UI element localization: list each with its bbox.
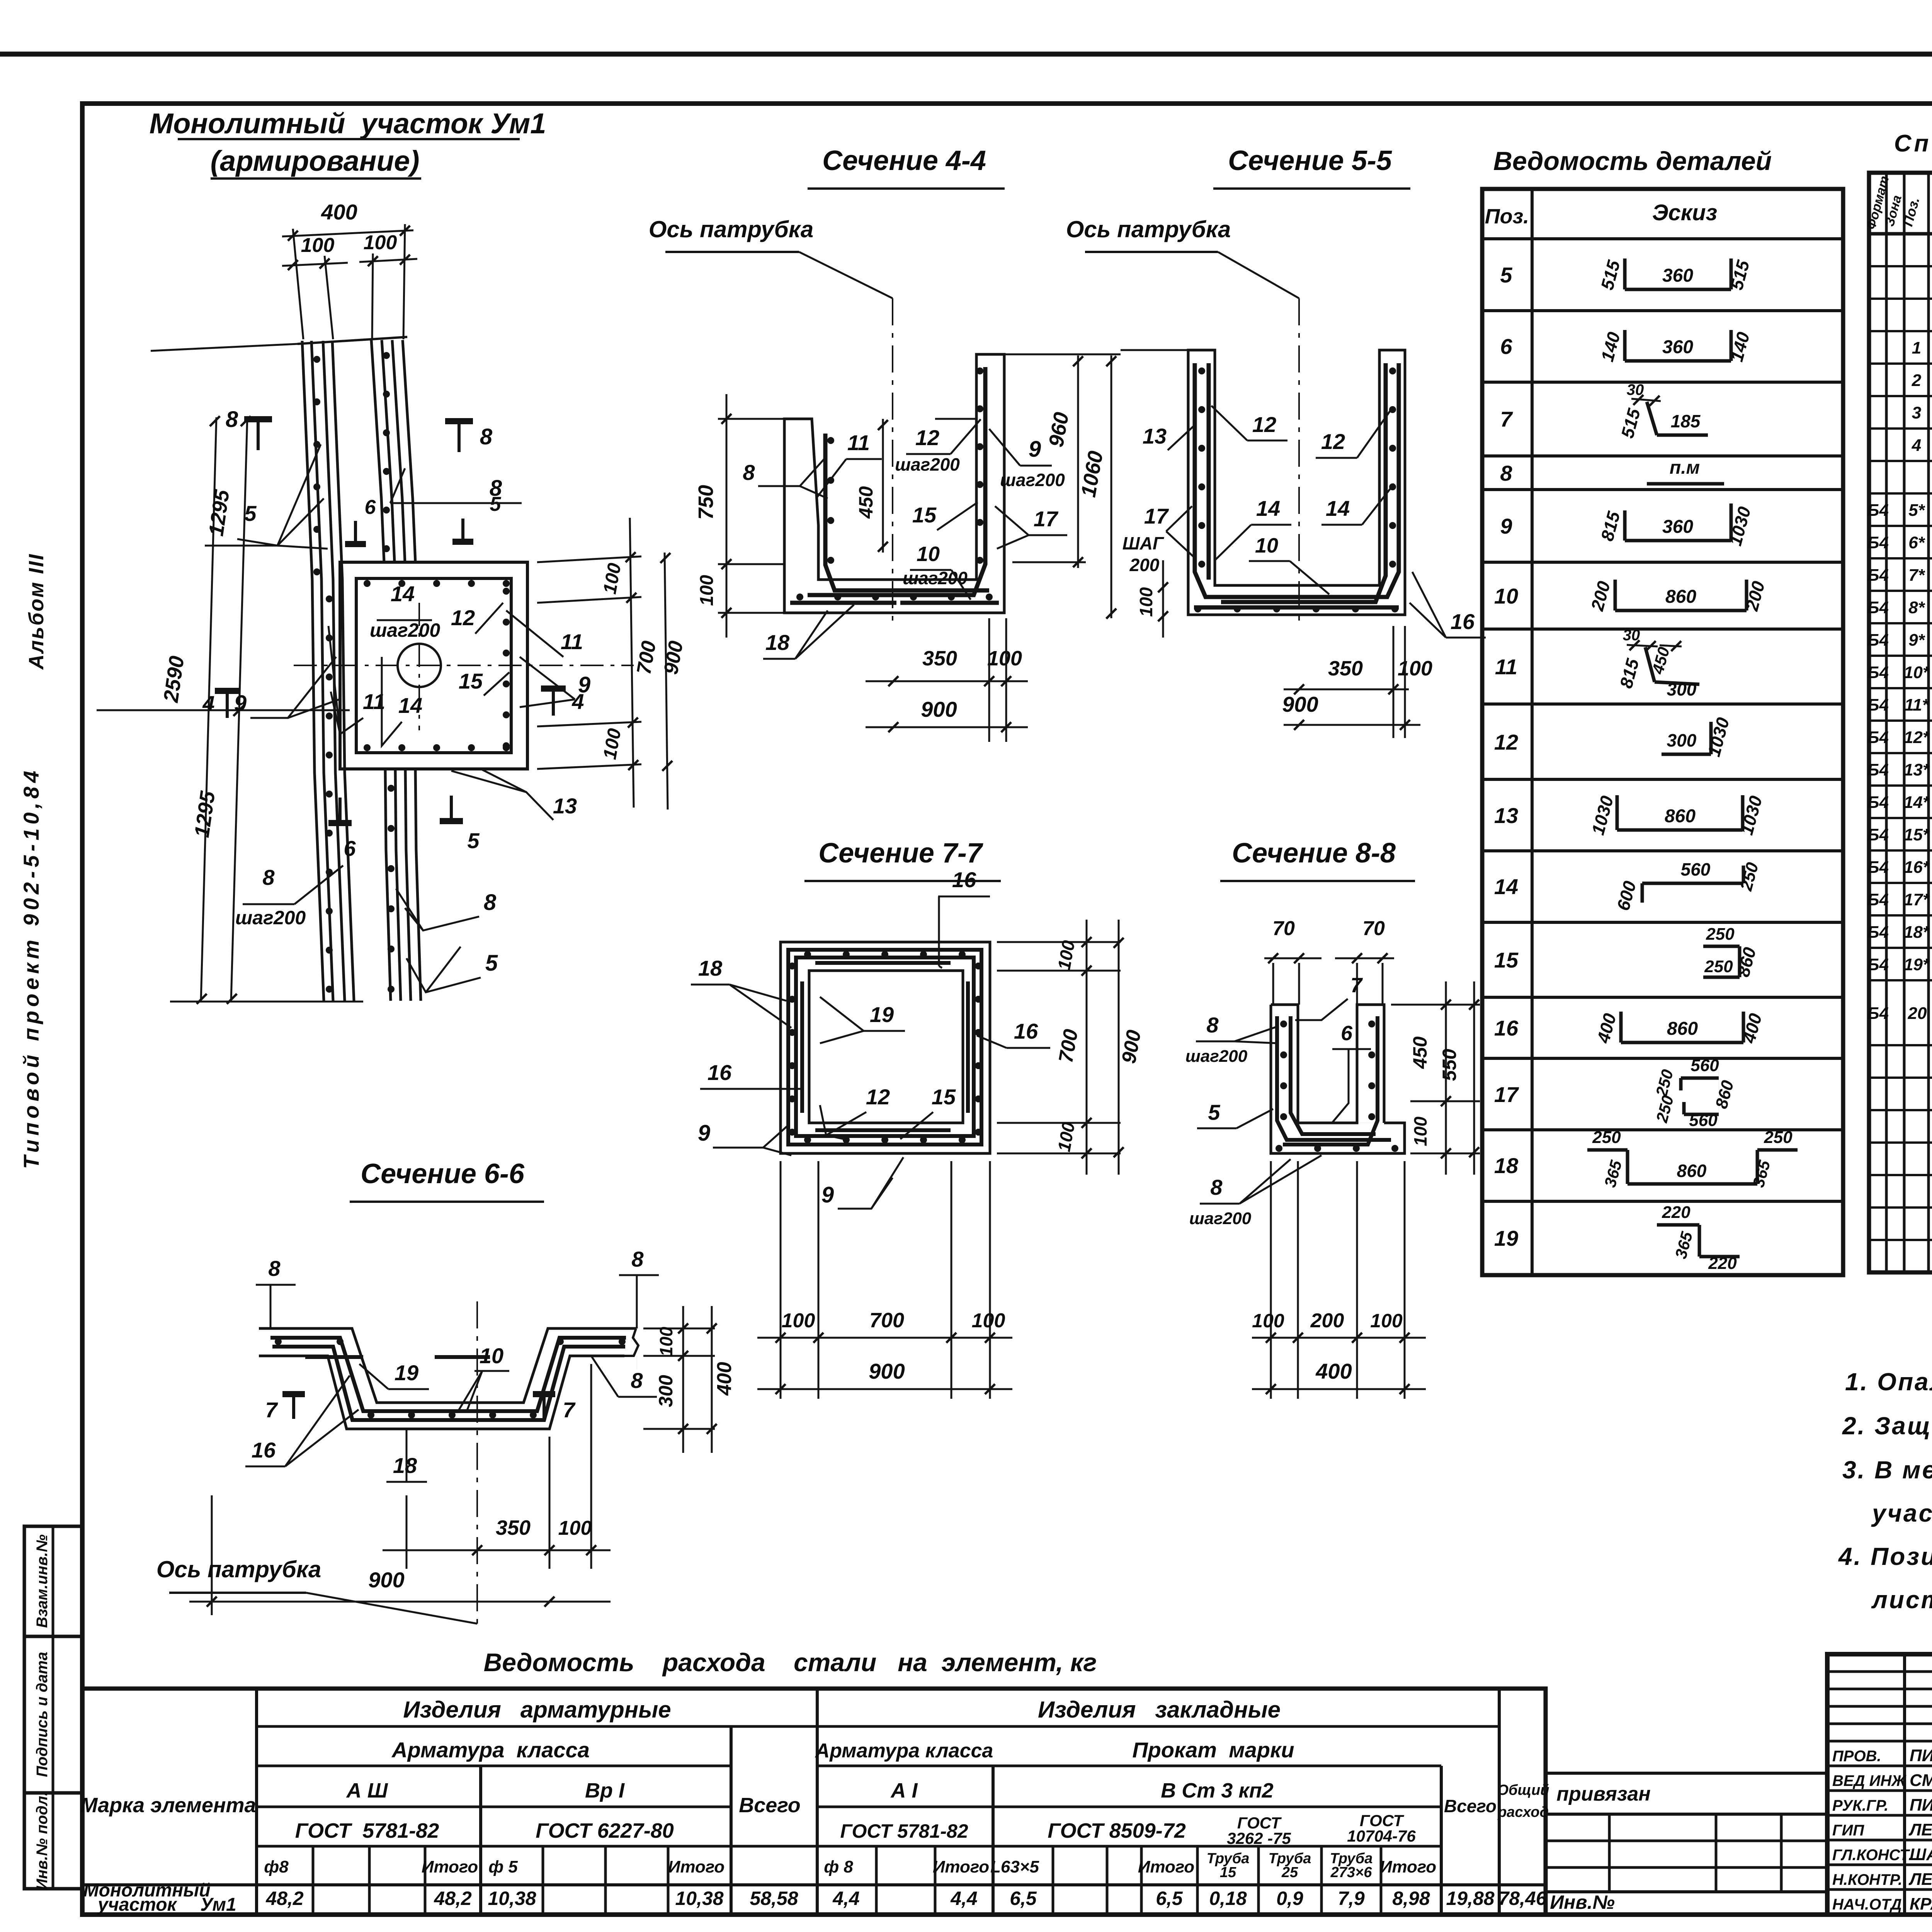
svg-text:Б4: Б4 bbox=[1867, 533, 1889, 552]
7-7 dimensions bottom bbox=[780, 1161, 782, 1399]
svg-text:Н.КОНТР.: Н.КОНТР. bbox=[1832, 1871, 1902, 1888]
svg-text:В Ст 3 кп2: В Ст 3 кп2 bbox=[1161, 1779, 1273, 1802]
svg-text:Ведомость расхода стали: Ведомость расхода стали на элемент, кг bbox=[484, 1648, 1097, 1677]
plan: wall top edge bbox=[298, 337, 407, 344]
svg-text:Общий: Общий bbox=[1497, 1782, 1549, 1798]
svg-text:шаг200: шаг200 bbox=[903, 568, 968, 588]
svg-text:шаг200: шаг200 bbox=[895, 454, 960, 474]
svg-text:Инв.№: Инв.№ bbox=[1550, 1891, 1615, 1913]
svg-text:220: 220 bbox=[1708, 1254, 1737, 1273]
svg-text:100: 100 bbox=[987, 647, 1022, 670]
svg-text:9: 9 bbox=[234, 691, 247, 716]
svg-text:Прокат марки: Прокат марки bbox=[1132, 1738, 1294, 1762]
4-4 concrete outline bbox=[784, 354, 1004, 613]
svg-text:ЛЕВИНА: ЛЕВИНА bbox=[1908, 1820, 1932, 1839]
svg-text:250: 250 bbox=[1764, 1128, 1793, 1147]
svg-text:2: 2 bbox=[1912, 371, 1922, 390]
svg-text:ф 5: ф 5 bbox=[488, 1857, 518, 1876]
svg-text:12: 12 bbox=[1252, 412, 1276, 437]
7-7 rebar rings bbox=[788, 950, 981, 1145]
svg-text:ГОСТ 5781-82: ГОСТ 5781-82 bbox=[840, 1820, 968, 1842]
svg-text:18: 18 bbox=[393, 1453, 417, 1478]
svg-text:14: 14 bbox=[1326, 496, 1350, 520]
6-6 rebar bbox=[270, 1338, 626, 1411]
svg-text:11: 11 bbox=[1495, 655, 1517, 679]
svg-text:13: 13 bbox=[1494, 803, 1518, 828]
svg-text:КРАСАВИН: КРАСАВИН bbox=[1910, 1895, 1932, 1913]
plan: middle opening box with circle bbox=[340, 562, 527, 769]
svg-text:15: 15 bbox=[912, 503, 937, 527]
svg-text:4,4: 4,4 bbox=[950, 1888, 978, 1909]
svg-text:8: 8 bbox=[631, 1247, 644, 1271]
svg-text:7: 7 bbox=[563, 1398, 576, 1422]
svg-text:4. Позиции *– см. ведомость: 4. Позиции *– см. ведомость деталей на д… bbox=[1838, 1543, 1932, 1570]
svg-text:350: 350 bbox=[922, 647, 957, 670]
svg-text:участка Ум1 поз. 8 отогнуть: участка Ум1 поз. 8 отогнуть и обрезать п… bbox=[1871, 1499, 1932, 1527]
svg-text:8: 8 bbox=[1500, 461, 1512, 485]
svg-text:15: 15 bbox=[932, 1085, 956, 1109]
svg-text:250: 250 bbox=[1706, 925, 1735, 944]
svg-text:9*: 9* bbox=[1908, 631, 1925, 650]
svg-text:860: 860 bbox=[1677, 1161, 1707, 1181]
svg-text:10,38: 10,38 bbox=[488, 1888, 536, 1909]
svg-text:1: 1 bbox=[1912, 338, 1921, 357]
svg-text:11: 11 bbox=[561, 629, 583, 654]
svg-text:1. Опалубочный чертеж см. ли: 1. Опалубочный чертеж см. лист АС-14. bbox=[1845, 1368, 1932, 1396]
svg-text:16: 16 bbox=[1014, 1019, 1038, 1043]
svg-text:2. Защитный слой бетона – 2: 2. Защитный слой бетона – 20 мм. bbox=[1842, 1412, 1932, 1440]
svg-text:11*: 11* bbox=[1905, 696, 1930, 714]
svg-text:100: 100 bbox=[558, 1517, 592, 1539]
svg-text:Арматура класса: Арматура класса bbox=[815, 1740, 993, 1762]
svg-text:ГОСТ 5781-82: ГОСТ 5781-82 bbox=[295, 1819, 439, 1842]
svg-text:5: 5 bbox=[1500, 263, 1512, 287]
plan: box right dims 100 700 100 bbox=[537, 556, 641, 562]
svg-text:11: 11 bbox=[847, 430, 870, 455]
svg-text:Б4: Б4 bbox=[1867, 696, 1889, 714]
svg-text:10704-76: 10704-76 bbox=[1347, 1827, 1416, 1845]
left edge small boxes bbox=[24, 1526, 82, 1636]
svg-text:Вр I: Вр I bbox=[585, 1779, 625, 1802]
svg-text:6: 6 bbox=[344, 836, 356, 861]
svg-text:8: 8 bbox=[490, 476, 502, 501]
svg-text:(армирование): (армирование) bbox=[211, 145, 420, 177]
svg-text:13: 13 bbox=[1143, 424, 1167, 448]
svg-text:шаг200: шаг200 bbox=[1185, 1047, 1248, 1066]
svg-text:360: 360 bbox=[1662, 517, 1693, 537]
привязан extension table bbox=[1546, 1772, 1827, 1775]
svg-text:6: 6 bbox=[1341, 1022, 1353, 1045]
svg-text:16: 16 bbox=[952, 867, 976, 892]
svg-text:12: 12 bbox=[451, 605, 475, 630]
svg-text:19: 19 bbox=[395, 1361, 418, 1385]
svg-text:Типовой проект 902-5-10,84: Типовой проект 902-5-10,84 bbox=[19, 767, 43, 1169]
svg-text:300: 300 bbox=[1667, 679, 1697, 699]
svg-text:10: 10 bbox=[480, 1344, 503, 1368]
svg-text:10*: 10* bbox=[1904, 663, 1930, 682]
svg-text:Итого: Итого bbox=[422, 1857, 478, 1876]
svg-text:900: 900 bbox=[869, 1359, 905, 1383]
svg-text:9: 9 bbox=[1029, 437, 1041, 462]
svg-text:Итого: Итого bbox=[668, 1857, 724, 1876]
svg-text:ЛЕВИНА: ЛЕВИНА bbox=[1908, 1870, 1932, 1889]
svg-text:360: 360 bbox=[1662, 337, 1693, 357]
svg-text:860: 860 bbox=[1665, 806, 1696, 827]
svg-text:3262 -75: 3262 -75 bbox=[1227, 1829, 1291, 1847]
svg-text:9: 9 bbox=[698, 1121, 710, 1146]
svg-text:8: 8 bbox=[1210, 1175, 1223, 1199]
svg-text:18: 18 bbox=[765, 630, 790, 655]
svg-text:10,38: 10,38 bbox=[675, 1888, 723, 1909]
svg-text:Итого: Итого bbox=[933, 1857, 989, 1876]
svg-text:300: 300 bbox=[655, 1375, 677, 1407]
svg-text:шаг200: шаг200 bbox=[235, 907, 306, 929]
svg-text:ф8: ф8 bbox=[264, 1857, 289, 1876]
svg-text:Ведомость деталей: Ведомость деталей bbox=[1493, 146, 1772, 176]
svg-text:12: 12 bbox=[1494, 730, 1518, 754]
svg-text:6: 6 bbox=[1500, 334, 1512, 359]
svg-text:Сечение 5-5: Сечение 5-5 bbox=[1228, 145, 1392, 176]
svg-text:Всего: Всего bbox=[739, 1794, 801, 1817]
svg-text:360: 360 bbox=[1662, 265, 1693, 286]
svg-text:ГОСТ 6227-80: ГОСТ 6227-80 bbox=[536, 1819, 674, 1842]
svg-text:100: 100 bbox=[1252, 1310, 1284, 1332]
svg-text:участок: участок bbox=[97, 1895, 177, 1915]
svg-text:Б4: Б4 bbox=[1867, 923, 1889, 942]
svg-text:17: 17 bbox=[1034, 507, 1059, 531]
svg-text:6: 6 bbox=[365, 496, 376, 519]
svg-text:17: 17 bbox=[1494, 1082, 1519, 1107]
svg-text:Арматура класса: Арматура класса bbox=[391, 1738, 590, 1762]
svg-text:8: 8 bbox=[480, 424, 493, 449]
svg-text:9: 9 bbox=[578, 672, 590, 697]
plan: left curved wall (pos 5) bbox=[302, 341, 324, 1001]
svg-text:14: 14 bbox=[1494, 874, 1518, 899]
svg-text:Сечение 6-6: Сечение 6-6 bbox=[361, 1158, 525, 1189]
svg-text:8: 8 bbox=[484, 890, 497, 915]
svg-text:Б4: Б4 bbox=[1867, 858, 1889, 877]
svg-text:Б4: Б4 bbox=[1867, 890, 1889, 909]
7-7 concrete square bbox=[781, 942, 990, 1153]
svg-text:ВЕД ИНЖ: ВЕД ИНЖ bbox=[1832, 1772, 1906, 1789]
svg-text:0,18: 0,18 bbox=[1209, 1888, 1247, 1909]
6-6 concrete outline (trough) bbox=[259, 1328, 636, 1403]
svg-text:Б4: Б4 bbox=[1867, 598, 1889, 617]
svg-text:ПИСЬМАН: ПИСЬМАН bbox=[1910, 1746, 1932, 1765]
svg-text:Б4: Б4 bbox=[1867, 728, 1889, 747]
8-8 dimensions right bbox=[1391, 1004, 1480, 1006]
svg-text:п.м: п.м bbox=[1670, 457, 1700, 478]
svg-text:Монолитный участок Ум1: Монолитный участок Ум1 bbox=[150, 107, 546, 139]
svg-text:0,9: 0,9 bbox=[1276, 1888, 1303, 1909]
svg-text:5: 5 bbox=[244, 501, 257, 526]
svg-text:19*: 19* bbox=[1904, 955, 1930, 974]
8-8 dimensions bottom bbox=[1270, 1161, 1272, 1399]
svg-text:9: 9 bbox=[821, 1182, 834, 1207]
svg-text:70: 70 bbox=[1362, 917, 1385, 940]
svg-text:10: 10 bbox=[1494, 584, 1518, 608]
svg-text:ПИСЬМАН: ПИСЬМАН bbox=[1910, 1796, 1932, 1815]
svg-text:Марка элемента: Марка элемента bbox=[80, 1794, 256, 1817]
svg-text:Инв.№ подл.: Инв.№ подл. bbox=[34, 1792, 51, 1890]
svg-text:Б4: Б4 bbox=[1867, 955, 1889, 974]
svg-text:Б4: Б4 bbox=[1867, 501, 1889, 520]
svg-text:70: 70 bbox=[1272, 917, 1295, 940]
4-4 rebar bbox=[825, 434, 989, 590]
svg-text:Спецификация деталей монолитно: Спецификация деталей монолитного участка… bbox=[1894, 130, 1932, 157]
svg-text:шаг200: шаг200 bbox=[370, 619, 440, 641]
svg-text:200: 200 bbox=[1310, 1310, 1344, 1332]
svg-text:13*: 13* bbox=[1904, 760, 1930, 779]
svg-text:Б4: Б4 bbox=[1867, 663, 1889, 682]
svg-text:8: 8 bbox=[268, 1256, 281, 1281]
sketches in Ведомость деталей bbox=[1623, 259, 1627, 289]
svg-text:100: 100 bbox=[364, 231, 397, 254]
svg-text:250: 250 bbox=[1704, 957, 1733, 976]
svg-text:расход: расход bbox=[1497, 1804, 1549, 1820]
svg-text:ГИП: ГИП bbox=[1832, 1822, 1864, 1839]
svg-text:ШАПИРО: ШАПИРО bbox=[1910, 1845, 1932, 1864]
svg-text:220: 220 bbox=[1662, 1203, 1690, 1222]
svg-text:273×6: 273×6 bbox=[1330, 1864, 1372, 1881]
svg-text:6*: 6* bbox=[1908, 533, 1925, 552]
svg-text:100: 100 bbox=[301, 234, 335, 257]
6-6 dims right bbox=[643, 1328, 715, 1330]
svg-text:А I: А I bbox=[890, 1779, 918, 1802]
svg-text:100: 100 bbox=[782, 1310, 815, 1332]
svg-text:8: 8 bbox=[226, 407, 238, 432]
5-5 concrete outline bbox=[1188, 350, 1405, 615]
svg-text:100: 100 bbox=[1370, 1310, 1403, 1332]
svg-text:Поз.: Поз. bbox=[1485, 205, 1529, 228]
svg-text:4: 4 bbox=[202, 691, 214, 716]
svg-text:900: 900 bbox=[921, 697, 957, 721]
svg-text:Итого: Итого bbox=[1380, 1857, 1436, 1876]
svg-text:16: 16 bbox=[707, 1060, 732, 1085]
7-7 dimensions right bbox=[997, 941, 1121, 943]
svg-text:14: 14 bbox=[1256, 496, 1280, 520]
svg-text:16: 16 bbox=[1451, 609, 1475, 634]
svg-text:14: 14 bbox=[391, 582, 415, 606]
svg-text:8*: 8* bbox=[1908, 598, 1925, 617]
svg-text:Сечение 8-8: Сечение 8-8 bbox=[1232, 838, 1396, 869]
5-5 rebar bbox=[1195, 363, 1374, 597]
svg-text:400: 400 bbox=[1315, 1359, 1352, 1383]
svg-text:Ось патрубка: Ось патрубка bbox=[1066, 216, 1231, 242]
svg-text:5: 5 bbox=[485, 951, 498, 976]
svg-text:10: 10 bbox=[917, 543, 940, 566]
svg-text:Альбом III: Альбом III bbox=[25, 553, 48, 670]
svg-text:шаг200: шаг200 bbox=[1000, 470, 1065, 490]
svg-text:Взам.инв.№: Взам.инв.№ bbox=[34, 1534, 51, 1628]
svg-text:шаг200: шаг200 bbox=[1189, 1209, 1252, 1228]
6-6 dims bottom bbox=[406, 1495, 408, 1569]
svg-text:400: 400 bbox=[713, 1362, 736, 1396]
svg-text:Эскиз: Эскиз bbox=[1652, 200, 1717, 225]
svg-text:8,98: 8,98 bbox=[1392, 1888, 1430, 1909]
svg-text:19,88: 19,88 bbox=[1446, 1888, 1494, 1909]
svg-text:Ось патрубка: Ось патрубка bbox=[156, 1556, 321, 1582]
svg-text:15: 15 bbox=[1220, 1864, 1236, 1881]
svg-text:8: 8 bbox=[262, 865, 275, 889]
svg-text:ГОСТ 8509-72: ГОСТ 8509-72 bbox=[1048, 1819, 1186, 1842]
svg-text:7: 7 bbox=[1350, 974, 1363, 997]
svg-text:12: 12 bbox=[915, 425, 939, 450]
svg-text:560: 560 bbox=[1689, 1111, 1718, 1130]
svg-text:3: 3 bbox=[1912, 403, 1921, 422]
svg-text:16: 16 bbox=[1494, 1016, 1519, 1040]
8-8 concrete outline bbox=[1271, 1005, 1384, 1123]
svg-text:ф 8: ф 8 bbox=[824, 1857, 853, 1876]
svg-text:18*: 18* bbox=[1904, 923, 1930, 942]
svg-text:Изделия закладные: Изделия закладные bbox=[1038, 1697, 1281, 1723]
svg-text:6,5: 6,5 bbox=[1010, 1888, 1037, 1909]
svg-text:250: 250 bbox=[1592, 1128, 1621, 1147]
svg-text:7: 7 bbox=[1500, 407, 1513, 431]
4-4 dimensions bbox=[718, 418, 784, 420]
svg-text:Б4: Б4 bbox=[1867, 760, 1889, 779]
svg-text:300: 300 bbox=[1667, 730, 1697, 750]
svg-text:48,2: 48,2 bbox=[434, 1888, 472, 1909]
svg-text:17: 17 bbox=[1144, 504, 1169, 528]
svg-text:РУК.ГР.: РУК.ГР. bbox=[1832, 1797, 1888, 1814]
svg-text:860: 860 bbox=[1667, 1019, 1698, 1039]
svg-text:25: 25 bbox=[1281, 1864, 1298, 1881]
svg-text:5*: 5* bbox=[1908, 501, 1925, 520]
svg-text:48,2: 48,2 bbox=[265, 1888, 304, 1909]
plan: section T marks bbox=[244, 419, 272, 450]
svg-text:19: 19 bbox=[1494, 1226, 1518, 1250]
svg-text:4: 4 bbox=[1912, 436, 1921, 455]
svg-text:5: 5 bbox=[467, 828, 480, 853]
svg-text:20: 20 bbox=[1908, 1004, 1927, 1023]
svg-text:12: 12 bbox=[866, 1085, 890, 1109]
svg-text:привязан: привязан bbox=[1556, 1783, 1651, 1805]
svg-text:8: 8 bbox=[631, 1368, 643, 1393]
svg-text:5: 5 bbox=[1208, 1100, 1220, 1124]
svg-text:100: 100 bbox=[697, 575, 717, 606]
svg-text:350: 350 bbox=[1328, 657, 1363, 680]
svg-text:Сечение 7-7: Сечение 7-7 bbox=[818, 838, 983, 869]
svg-text:14*: 14* bbox=[1904, 793, 1930, 812]
svg-text:100: 100 bbox=[1136, 587, 1156, 617]
svg-text:78,46: 78,46 bbox=[1498, 1888, 1547, 1909]
svg-text:6,5: 6,5 bbox=[1156, 1888, 1183, 1909]
plan: left outer dim lines 1295/2590/1295 bbox=[201, 417, 216, 1001]
svg-text:15: 15 bbox=[459, 669, 483, 693]
svg-text:860: 860 bbox=[1665, 587, 1696, 607]
svg-text:450: 450 bbox=[855, 486, 877, 519]
svg-text:17*: 17* bbox=[1904, 890, 1930, 909]
svg-text:ПРОВ.: ПРОВ. bbox=[1832, 1748, 1881, 1765]
svg-text:Копировал: Корецкая: Копировал: Корецкая bbox=[1882, 1927, 1932, 1932]
svg-text:Сечение 4-4: Сечение 4-4 bbox=[822, 145, 986, 176]
svg-text:Б4: Б4 bbox=[1867, 825, 1889, 844]
svg-text:7*: 7* bbox=[1908, 566, 1925, 585]
svg-text:НАЧ.ОТД: НАЧ.ОТД bbox=[1832, 1896, 1902, 1913]
svg-text:7: 7 bbox=[265, 1398, 278, 1422]
svg-text:Б4: Б4 bbox=[1867, 1004, 1889, 1023]
svg-text:3. В местах излома днища и: 3. В местах излома днища и стен монолитн… bbox=[1842, 1456, 1932, 1484]
svg-text:560: 560 bbox=[1681, 859, 1711, 879]
8-8 rebar bbox=[1277, 1016, 1391, 1140]
svg-text:ШАГ: ШАГ bbox=[1122, 533, 1164, 553]
svg-text:15: 15 bbox=[1494, 948, 1519, 972]
svg-text:Б4: Б4 bbox=[1867, 793, 1889, 812]
plan: right curved wall (pos 5) bbox=[371, 340, 384, 562]
svg-text:Б4: Б4 bbox=[1867, 566, 1889, 585]
svg-text:100: 100 bbox=[1398, 657, 1432, 680]
svg-text:Ось патрубка: Ось патрубка bbox=[649, 216, 814, 242]
svg-text:ГЛ.КОНСТ.: ГЛ.КОНСТ. bbox=[1832, 1847, 1913, 1864]
svg-text:12*: 12* bbox=[1904, 728, 1930, 747]
svg-text:Ум1: Ум1 bbox=[200, 1895, 236, 1915]
svg-text:8: 8 bbox=[743, 460, 755, 485]
svg-text:560: 560 bbox=[1690, 1056, 1719, 1075]
svg-text:18: 18 bbox=[1494, 1153, 1519, 1178]
5-5 dimensions bbox=[1121, 349, 1188, 351]
svg-text:350: 350 bbox=[496, 1516, 531, 1539]
svg-text:15*: 15* bbox=[1904, 825, 1930, 844]
svg-text:Всего: Всего bbox=[1444, 1796, 1497, 1816]
svg-text:9: 9 bbox=[1500, 514, 1512, 538]
svg-text:19: 19 bbox=[870, 1002, 894, 1027]
svg-text:8: 8 bbox=[1206, 1013, 1219, 1037]
top rule bbox=[0, 52, 1932, 57]
svg-text:18: 18 bbox=[698, 956, 723, 980]
svg-text:14: 14 bbox=[398, 693, 422, 718]
svg-text:750: 750 bbox=[694, 485, 718, 520]
svg-text:100: 100 bbox=[1410, 1116, 1430, 1146]
svg-text:16: 16 bbox=[252, 1438, 276, 1462]
svg-text:СМЫСЛОВА: СМЫСЛОВА bbox=[1910, 1771, 1932, 1790]
svg-text:Изделия арматурные: Изделия арматурные bbox=[403, 1697, 671, 1723]
svg-text:7,9: 7,9 bbox=[1338, 1888, 1365, 1909]
svg-text:100: 100 bbox=[972, 1310, 1005, 1332]
svg-text:А Ш: А Ш bbox=[346, 1779, 388, 1802]
svg-text:400: 400 bbox=[321, 200, 357, 224]
svg-text:700: 700 bbox=[869, 1309, 904, 1332]
svg-text:450: 450 bbox=[1409, 1036, 1431, 1069]
svg-text:58,58: 58,58 bbox=[750, 1888, 798, 1909]
svg-text:13: 13 bbox=[553, 794, 577, 818]
svg-text:Б4: Б4 bbox=[1867, 631, 1889, 650]
svg-text:900: 900 bbox=[368, 1568, 404, 1592]
svg-text:Итого: Итого bbox=[1138, 1857, 1194, 1876]
svg-text:550: 550 bbox=[1439, 1049, 1460, 1081]
svg-text:200: 200 bbox=[1129, 555, 1160, 575]
svg-text:10: 10 bbox=[1255, 534, 1278, 557]
svg-text:4,4: 4,4 bbox=[832, 1888, 860, 1909]
svg-text:100: 100 bbox=[656, 1327, 676, 1356]
svg-text:листе.: листе. bbox=[1871, 1586, 1932, 1614]
svg-text:16*: 16* bbox=[1904, 858, 1930, 877]
svg-text:900: 900 bbox=[1282, 692, 1318, 716]
svg-text:L63×5: L63×5 bbox=[990, 1857, 1039, 1876]
svg-text:12: 12 bbox=[1321, 429, 1345, 454]
title block (штамп) bbox=[1827, 1654, 1932, 1915]
svg-text:185: 185 bbox=[1671, 411, 1701, 431]
svg-text:Подпись и дата: Подпись и дата bbox=[34, 1652, 51, 1777]
